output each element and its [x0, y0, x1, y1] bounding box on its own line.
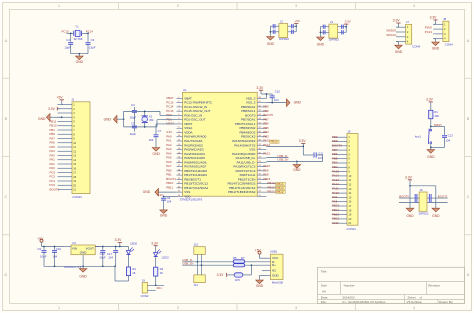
ground CON21 — [38, 113, 63, 121]
wire USB gnd — [260, 271, 267, 280]
net labels CON21 — [50, 119, 60, 191]
designator J5 — [347, 129, 350, 133]
svg-text:PB12: PB12 — [276, 190, 283, 194]
svg-text:3.3V: 3.3V — [299, 139, 307, 143]
svg-text:Size: Size — [321, 284, 327, 288]
wire J11 legs — [198, 262, 202, 275]
capacitor C15 boot right — [429, 194, 431, 203]
connector J8 CON4 body — [443, 21, 449, 41]
value 32.768 — [74, 37, 83, 41]
svg-text:Drawn By:: Drawn By: — [439, 300, 453, 304]
label CON4 J8 — [445, 42, 453, 46]
svg-text:R5: R5 — [233, 256, 237, 260]
U1 left net labels — [166, 96, 176, 189]
svg-text:+5V: +5V — [295, 19, 300, 23]
ground USB — [256, 279, 264, 288]
svg-text:R7: R7 — [241, 256, 245, 260]
svg-text:PC14: PC14 — [86, 30, 94, 34]
svg-text:SWDIO: SWDIO — [386, 28, 397, 32]
power 3.3V reset — [426, 98, 434, 111]
power 3.3V output — [115, 238, 123, 246]
svg-text:GND: GND — [432, 47, 440, 51]
svg-text:GND: GND — [395, 50, 403, 54]
label GND — [76, 60, 84, 64]
svg-text:U1: U1 — [183, 88, 187, 92]
svg-text:CON21: CON21 — [346, 227, 356, 231]
connector J7 CON4 body — [406, 24, 412, 44]
svg-text:LED0: LED0 — [130, 241, 138, 245]
svg-text:P5V0: P5V0 — [425, 25, 432, 29]
wire J2 right — [288, 24, 297, 34]
frame row letters — [4, 39, 469, 277]
connector J10 body — [194, 247, 206, 255]
svg-text:J11: J11 — [194, 283, 199, 287]
svg-text:3: 3 — [295, 4, 297, 8]
svg-text:LED2: LED2 — [162, 255, 170, 259]
value 104 — [167, 200, 172, 204]
svg-text:3.3V: 3.3V — [157, 193, 163, 197]
svg-text:GND: GND — [293, 168, 301, 172]
svg-text:J5: J5 — [347, 129, 350, 133]
connector J8 pins — [433, 22, 446, 40]
wire BOOT1 pin2 — [427, 202, 448, 204]
svg-text:C5: C5 — [131, 121, 135, 125]
wire C11 branch — [303, 146, 313, 155]
power +5V USB — [255, 249, 267, 259]
svg-text:15pF: 15pF — [89, 45, 96, 49]
svg-text:C7: C7 — [158, 129, 162, 133]
svg-text:F:\..\stm32f103c8t6-V5.SchDoc: F:\..\stm32f103c8t6-V5.SchDoc — [343, 300, 386, 304]
node PB10 callout — [270, 140, 279, 144]
node PB12 callout — [266, 190, 285, 194]
wire VDD_3 to 3.3V — [261, 93, 272, 98]
svg-text:C: C — [4, 195, 7, 199]
ground Y1 — [76, 54, 84, 60]
svg-text:PC13: PC13 — [425, 30, 433, 34]
capacitor C13 — [442, 136, 447, 148]
net label BOOT0 — [399, 194, 409, 198]
ground VSS_3 — [286, 99, 301, 107]
value 20pF — [130, 132, 137, 136]
wire J3 left — [320, 25, 329, 36]
label C9 — [37, 247, 41, 251]
U1 right pins — [257, 97, 266, 197]
svg-text:GND: GND — [432, 214, 440, 218]
connector J1 pins — [58, 103, 77, 192]
power 3.3V VDD_3 — [256, 86, 264, 94]
svg-text:3.3V: 3.3V — [393, 19, 401, 23]
svg-text:15pF: 15pF — [65, 45, 72, 49]
wire BOOT0 pin — [399, 197, 419, 199]
svg-text:104: 104 — [52, 254, 57, 258]
svg-text:1K5: 1K5 — [235, 278, 240, 282]
svg-text:10uF: 10uF — [99, 255, 106, 259]
label R4 — [132, 267, 136, 271]
net label PC15 — [62, 30, 70, 34]
label R2 — [160, 267, 164, 271]
label MiniUSB — [272, 281, 283, 285]
svg-text:1: 1 — [58, 4, 60, 8]
capacitor C11 — [314, 152, 316, 157]
ground boot right — [432, 207, 440, 218]
wire gnd rail — [44, 265, 116, 267]
svg-text:CON2: CON2 — [141, 294, 149, 298]
wire OSC_OUT — [157, 120, 177, 127]
power +5V input — [37, 237, 44, 247]
svg-text:4: 4 — [413, 4, 415, 8]
label CON21 right — [346, 227, 356, 231]
svg-text:2014/5/2: 2014/5/2 — [343, 295, 355, 299]
svg-text:104: 104 — [108, 255, 113, 259]
svg-text:C3: C3 — [91, 38, 95, 42]
net label SWDIO — [386, 28, 397, 32]
wire C11 to gnd rail — [296, 155, 323, 162]
ground boot left — [406, 207, 414, 218]
svg-text:GND: GND — [79, 275, 87, 279]
wire X1 loop bottom — [124, 126, 157, 128]
value 104 — [52, 254, 57, 258]
connector J9 pin2 — [148, 289, 156, 291]
svg-text:PA13: PA13 — [263, 151, 270, 155]
svg-text:GND: GND — [104, 117, 112, 121]
svg-text:Sheet: Sheet — [408, 295, 416, 299]
capacitor C3 — [86, 43, 91, 45]
svg-text:1K: 1K — [160, 271, 164, 275]
value 10K — [434, 114, 439, 118]
svg-text:104: 104 — [445, 139, 450, 143]
value 1K5 — [235, 278, 240, 282]
svg-text:20pF: 20pF — [130, 116, 137, 120]
capacitor C10 VDD_3 — [270, 94, 275, 103]
svg-text:VDD: VDD — [184, 194, 191, 198]
label DIP0S2 boot — [419, 211, 429, 215]
power 3.3V U1 VDD — [157, 193, 177, 198]
ground C11 — [293, 161, 301, 172]
svg-text:GND: GND — [272, 273, 280, 277]
svg-text:3.3V: 3.3V — [217, 273, 225, 277]
value 10uF — [40, 254, 47, 258]
connector J1 CON21 body — [72, 102, 90, 194]
svg-text:SWCLK: SWCLK — [386, 33, 396, 37]
label CON2 — [141, 294, 149, 298]
ground key1 — [427, 147, 435, 159]
ground J8 — [432, 39, 440, 51]
label R5 — [233, 256, 245, 260]
svg-text:C9: C9 — [37, 247, 41, 251]
resistor R1 — [429, 110, 433, 118]
capacitor C17 — [113, 247, 118, 267]
svg-text:10K: 10K — [434, 114, 439, 118]
svg-text:PB12: PB12 — [267, 190, 274, 194]
label CON21 — [72, 195, 82, 199]
node PB13 callout — [266, 185, 285, 189]
svg-text:USB1: USB1 — [270, 250, 278, 254]
title block texts — [321, 270, 454, 304]
svg-text:Number: Number — [344, 284, 355, 288]
designator J3 — [330, 20, 333, 24]
label LED2 — [162, 255, 170, 259]
svg-text:GND: GND — [267, 42, 275, 46]
capacitor C4 — [132, 107, 137, 125]
value 15pF — [65, 45, 72, 49]
capacitor C12 — [100, 247, 105, 267]
svg-text:+5V: +5V — [57, 95, 64, 99]
svg-text:3.3V: 3.3V — [256, 86, 264, 90]
frame column numbers — [58, 4, 415, 310]
value STM32F103C8T6 — [180, 198, 203, 202]
svg-text:GND: GND — [256, 284, 264, 288]
svg-text:USB_D+: USB_D+ — [277, 158, 289, 162]
label C8 — [167, 196, 171, 200]
wire cap C2 branch — [70, 33, 72, 42]
resistor R2 — [154, 267, 158, 276]
net label NRST — [434, 123, 442, 127]
designator J7 — [406, 20, 409, 24]
USB1 pins — [267, 258, 271, 275]
net label USB_D- bottom — [182, 258, 193, 262]
svg-text:3.3V: 3.3V — [430, 16, 438, 20]
label C17 — [107, 252, 113, 256]
wire R1 to NRST node — [430, 119, 432, 129]
svg-text:PA1: PA1 — [157, 286, 163, 290]
svg-text:CON4: CON4 — [412, 45, 420, 49]
svg-text:VOUT: VOUT — [86, 247, 95, 251]
svg-text:1: 1 — [58, 306, 60, 310]
wire 3.3V feed row — [266, 145, 303, 147]
svg-text:3.3V: 3.3V — [48, 107, 56, 111]
wire key1 gnd node — [430, 147, 445, 149]
svg-text:GND: GND — [317, 43, 325, 47]
svg-text:STM32F103C8T6: STM32F103C8T6 — [180, 198, 203, 202]
connector J5 pins — [332, 135, 352, 225]
svg-text:A4: A4 — [322, 289, 326, 293]
label C4 — [131, 103, 135, 107]
net labels CON21 right — [332, 135, 342, 225]
svg-text:104: 104 — [318, 156, 323, 160]
power +5V — [57, 95, 64, 104]
svg-text:GND: GND — [80, 251, 88, 255]
svg-text:J3: J3 — [330, 20, 333, 24]
resistor R5 series D- — [233, 260, 245, 263]
net label SWCLK — [386, 33, 396, 37]
U1 left pin names — [184, 96, 213, 198]
svg-text:J1: J1 — [71, 98, 74, 102]
wire NRST cap branch — [156, 124, 177, 134]
svg-text:GND: GND — [427, 155, 435, 159]
svg-text:4: 4 — [413, 306, 415, 310]
wire caps to gnd rail — [71, 44, 88, 54]
label DIP0S2 J2 — [279, 37, 289, 41]
value 15pF — [89, 45, 96, 49]
svg-text:3.3V: 3.3V — [405, 176, 413, 180]
label key1 — [415, 134, 421, 138]
connector J9 CON2 body — [142, 283, 147, 294]
U1 left pins — [177, 97, 183, 197]
svg-text:J10: J10 — [194, 243, 199, 247]
label X1 — [149, 114, 153, 118]
net label PC14 — [86, 30, 94, 34]
svg-text:MiniUSB: MiniUSB — [272, 281, 283, 285]
svg-text:C4: C4 — [131, 103, 135, 107]
svg-text:NRST: NRST — [166, 122, 174, 126]
label C11 — [318, 152, 323, 156]
value 20pF — [130, 116, 137, 120]
connector USB1 MiniUSB body — [271, 254, 284, 279]
svg-text:Title: Title — [321, 270, 327, 274]
label DIP0S2 J3 — [329, 38, 339, 42]
switch key1 — [428, 129, 431, 148]
value 104 — [445, 139, 450, 143]
crystal Y1 — [74, 30, 82, 36]
svg-text:J8: J8 — [443, 17, 446, 21]
label C13 — [448, 133, 454, 137]
ground U1 VSS — [143, 188, 177, 196]
ground C7 — [152, 146, 160, 156]
designator USB1 — [270, 250, 278, 254]
capacitor C10a — [52, 247, 57, 267]
value 1K — [160, 271, 164, 275]
label C2 — [66, 38, 70, 42]
value 8M — [149, 118, 154, 122]
connector J6 body — [419, 192, 427, 211]
wire Y1 to PC14 — [81, 32, 88, 34]
net label BOOT1 — [438, 194, 448, 198]
svg-text:BOOT0: BOOT0 — [399, 194, 409, 198]
value 104 — [108, 255, 113, 259]
wire boot top bracket — [409, 185, 436, 207]
svg-text:20pF: 20pF — [130, 132, 137, 136]
power 3.3V pin2 — [48, 107, 60, 111]
svg-text:V5.SchDoc: V5.SchDoc — [407, 300, 423, 304]
wire J3 right — [338, 25, 347, 35]
svg-text:3.3V: 3.3V — [426, 98, 434, 102]
wire BOOT1 pin — [427, 197, 448, 199]
capacitor C2 — [68, 43, 73, 45]
net label USB_D+ bottom — [182, 262, 194, 266]
connector J5 CON21 body — [347, 134, 358, 226]
connector J11 body — [194, 275, 206, 283]
svg-text:2: 2 — [177, 4, 179, 8]
svg-text:U2: U2 — [72, 241, 76, 245]
wire 5V rail — [42, 246, 65, 248]
label Y1 — [75, 25, 79, 29]
wire X1 loop top — [124, 110, 160, 112]
svg-text:2: 2 — [177, 306, 179, 310]
svg-text:PC15: PC15 — [62, 30, 70, 34]
wire R2 to CON2 — [148, 276, 165, 286]
wire cap C3 branch — [87, 33, 89, 42]
power 3.3V C11 — [299, 139, 307, 147]
net label PA1 — [157, 286, 163, 290]
U1 right pin names — [228, 96, 257, 194]
wire PC15 to Y1 — [67, 32, 74, 34]
wire J10 legs — [197, 254, 203, 266]
svg-text:3.3V: 3.3V — [345, 20, 351, 24]
svg-text:DIP0S2: DIP0S2 — [419, 211, 429, 215]
svg-text:PB11: PB11 — [166, 185, 173, 189]
net label USB_D- — [266, 154, 288, 158]
title block frame — [318, 267, 465, 303]
label LED0 — [130, 241, 138, 245]
svg-text:GND: GND — [38, 117, 46, 121]
designator J1 — [71, 98, 74, 102]
svg-text:DIP0S2: DIP0S2 — [279, 37, 289, 41]
svg-text:DIP0S2: DIP0S2 — [329, 38, 339, 42]
resistor R6 pullup — [234, 273, 243, 277]
svg-text:J2: J2 — [280, 19, 283, 23]
svg-text:104: 104 — [149, 138, 154, 142]
svg-text:J6: J6 — [419, 188, 422, 192]
designator J8 — [443, 17, 446, 21]
svg-text:BOOT1: BOOT1 — [50, 187, 60, 191]
svg-text:J7: J7 — [406, 20, 409, 24]
svg-text:GND: GND — [76, 60, 84, 64]
svg-text:CON4: CON4 — [445, 42, 453, 46]
capacitor C9 — [42, 247, 47, 267]
svg-text:GND: GND — [143, 190, 151, 194]
svg-text:C2: C2 — [66, 38, 70, 42]
ground C8 — [160, 208, 168, 217]
node PB14 callout — [266, 181, 285, 186]
ground J2 — [267, 35, 275, 46]
svg-text:3.3V: 3.3V — [115, 238, 123, 242]
label C3 — [91, 38, 95, 42]
svg-text:D+: D+ — [272, 263, 276, 267]
designator J10 — [194, 243, 199, 247]
svg-text:D: D — [467, 273, 470, 277]
svg-text:+5V: +5V — [255, 249, 262, 253]
U1 right net labels — [263, 105, 273, 181]
svg-text:3: 3 — [295, 306, 297, 310]
value 1K — [132, 271, 136, 275]
ground J3 — [317, 36, 325, 47]
wire R6 to D+ — [243, 264, 252, 275]
svg-text:GND: GND — [294, 101, 302, 105]
label C12 — [100, 252, 106, 256]
label AMS1117 — [64, 265, 81, 269]
svg-text:BOOT1: BOOT1 — [438, 194, 448, 198]
wire 3.3V rail — [95, 246, 128, 248]
svg-text:C16: C16 — [56, 247, 62, 251]
svg-text:VIN: VIN — [72, 247, 77, 251]
connector J3 body — [329, 24, 338, 38]
power 3.3V J8 — [430, 16, 438, 25]
svg-text:USB_D+: USB_D+ — [182, 262, 194, 266]
svg-text:J9: J9 — [142, 278, 145, 282]
label C10 — [275, 90, 281, 94]
power +5V J2 — [294, 19, 300, 26]
power 3.3V pullup — [217, 273, 235, 277]
svg-text:GND: GND — [406, 214, 414, 218]
net label USB_D+ — [266, 158, 297, 162]
value 104 — [318, 156, 323, 160]
USB1 pin names — [272, 256, 280, 277]
designator U2 — [72, 241, 76, 245]
svg-text:3.3V: 3.3V — [151, 241, 159, 245]
svg-text:8M: 8M — [149, 118, 154, 122]
svg-text:PB10: PB10 — [271, 140, 278, 144]
svg-text:GND: GND — [160, 214, 168, 218]
power 3.3V J7 — [393, 19, 401, 28]
wire BOOT0 pin2 — [399, 202, 419, 204]
value 104 — [149, 138, 154, 142]
crystal X1 — [142, 111, 148, 128]
svg-text:C13: C13 — [448, 133, 454, 137]
svg-text:D: D — [4, 273, 7, 277]
svg-text:Y1: Y1 — [75, 25, 79, 29]
designator J9 — [142, 278, 145, 282]
svg-text:GND: GND — [153, 152, 161, 156]
